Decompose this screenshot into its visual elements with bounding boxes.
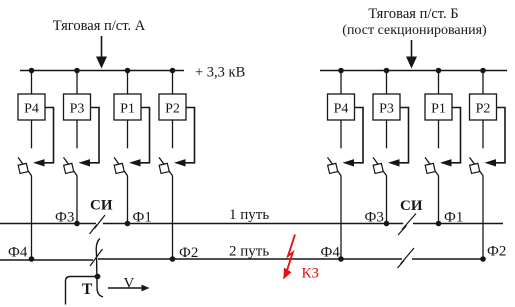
arrowhead lightning bolt (283, 268, 291, 280)
wire box to switch right feeder Р2 (482, 120, 484, 148)
wire train T branch with corner (66, 277, 98, 305)
wire switch to track left feeder Р1 (127, 176, 129, 224)
node track junction right feeder Р2 (480, 256, 486, 262)
wire switch to track right feeder Р4 (340, 176, 342, 259)
svg-text:СИ: СИ (400, 198, 423, 214)
disconnector blade right feeder Р4 (328, 157, 342, 175)
disconnector drive box right feeder Р4 (328, 163, 338, 173)
section insulator slashes track 1 left (90, 215, 106, 234)
wire track 2 contact line middle section (98, 258, 402, 260)
svg-text:Р1: Р1 (431, 102, 446, 117)
wire box to switch left feeder Р3 (76, 120, 78, 148)
svg-text:Р1: Р1 (120, 102, 135, 117)
wire box to switch right feeder Р1 (438, 120, 440, 148)
node track junction left feeder Р1 (125, 221, 131, 227)
disconnector drive box left feeder Р2 (159, 163, 169, 173)
section insulator slash track 2 right (398, 248, 415, 268)
wire switch to track right feeder Р1 (438, 176, 440, 224)
wire bus to relay box left feeder Р2 (172, 71, 174, 95)
node track junction left feeder Р4 (29, 256, 35, 262)
relay box right feeder Р1 (425, 94, 452, 120)
disconnector blade right feeder Р2 (470, 157, 484, 175)
disconnector blade right feeder Р3 (373, 157, 387, 175)
disconnector drive box right feeder Р2 (470, 163, 480, 173)
wire busbar A +3.3kV (20, 70, 184, 72)
node track junction right feeder Р1 (436, 221, 442, 227)
disconnector blade left feeder Р4 (18, 157, 32, 175)
wire bus to relay box left feeder Р4 (31, 71, 33, 95)
wire bus to relay box right feeder Р2 (482, 71, 484, 95)
wire switch to track left feeder Р3 (76, 176, 78, 224)
svg-text:(пост секционирования): (пост секционирования) (342, 23, 487, 38)
wire bus to relay box left feeder Р1 (127, 71, 129, 95)
disconnector blade left feeder Р2 (159, 157, 173, 175)
svg-text:Т: Т (82, 281, 93, 298)
disconnector drive box left feeder Р3 (64, 163, 74, 173)
relay box left feeder Р2 (159, 94, 186, 120)
arrowhead trip arrow right feeder Р1 (440, 159, 452, 166)
arrowhead trip arrow right feeder Р3 (388, 159, 400, 166)
wire switch to track left feeder Р4 (31, 176, 33, 259)
node bus junction right feeder Р2 (480, 68, 486, 74)
wire box to switch right feeder Р3 (386, 120, 388, 148)
disconnector blade left feeder Р3 (64, 157, 78, 175)
relay box right feeder Р2 (470, 94, 497, 120)
svg-text:Тяговая п/ст. Б: Тяговая п/ст. Б (368, 6, 458, 22)
svg-text:Р3: Р3 (70, 102, 85, 117)
wire bus to relay box left feeder Р3 (76, 71, 78, 95)
relay box left feeder Р4 (18, 94, 45, 120)
arrow V direction (108, 285, 150, 292)
relay box right feeder Р3 (373, 94, 400, 120)
svg-text:V: V (124, 275, 135, 291)
arrowhead trip arrow left feeder Р1 (129, 159, 141, 166)
svg-text:Ф3: Ф3 (55, 210, 74, 226)
wire trip arrow right feeder Р2 (496, 108, 506, 163)
svg-text:СИ: СИ (90, 198, 113, 214)
svg-text:Р3: Р3 (379, 102, 394, 117)
arrowhead trip arrow left feeder Р3 (79, 159, 91, 166)
wire track 2 contact line right section (412, 258, 483, 260)
svg-text:Ф1: Ф1 (444, 210, 463, 226)
svg-text:Ф2: Ф2 (179, 245, 198, 261)
wire trip arrow left feeder Р1 (140, 108, 150, 163)
wire trip arrow left feeder Р4 (44, 108, 54, 163)
svg-text:2 путь: 2 путь (229, 244, 269, 260)
svg-text:КЗ: КЗ (302, 266, 320, 282)
wire trip arrow right feeder Р4 (354, 108, 364, 163)
wire bus to relay box right feeder Р1 (438, 71, 440, 95)
node bus junction left feeder Р4 (29, 68, 35, 74)
node train T junction (95, 274, 101, 280)
arrow substation A feed (96, 36, 107, 69)
svg-text:1 путь: 1 путь (229, 207, 269, 223)
svg-text:Ф4: Ф4 (8, 245, 28, 261)
wire switch to track right feeder Р3 (386, 176, 388, 224)
svg-text:Тяговая п/ст. А: Тяговая п/ст. А (53, 18, 146, 34)
relay box right feeder Р4 (328, 94, 355, 120)
node track junction left feeder Р3 (74, 221, 80, 227)
wire box to switch left feeder Р2 (172, 120, 174, 148)
wire switch to track left feeder Р2 (172, 176, 174, 259)
wire track 1 contact line middle section (103, 223, 403, 225)
svg-text:Ф3: Ф3 (365, 210, 384, 226)
node bus junction right feeder Р4 (338, 68, 344, 74)
wire box to switch right feeder Р4 (340, 120, 342, 148)
wire switch to track right feeder Р2 (482, 176, 484, 259)
node bus junction right feeder Р1 (436, 68, 442, 74)
svg-text:Р4: Р4 (334, 102, 349, 117)
node bus junction left feeder Р3 (74, 68, 80, 74)
node track junction right feeder Р4 (338, 256, 344, 262)
svg-text:Ф4: Ф4 (321, 245, 341, 261)
wire busbar B (320, 70, 507, 72)
wire bus to relay box right feeder Р4 (340, 71, 342, 95)
wire track 1 contact line left section (0, 223, 96, 225)
node bus junction left feeder Р1 (125, 68, 131, 74)
node track junction right feeder Р3 (384, 221, 390, 227)
section insulator slash track 2 left (90, 249, 103, 266)
arrowhead trip arrow right feeder Р2 (485, 159, 497, 166)
wire track 1 contact line right section (413, 223, 503, 225)
relay box left feeder Р1 (114, 94, 141, 120)
wire trip arrow left feeder Р3 (90, 108, 100, 163)
disconnector drive box right feeder Р3 (373, 163, 383, 173)
disconnector drive box right feeder Р1 (425, 163, 435, 173)
arrowhead trip arrow left feeder Р2 (174, 159, 186, 166)
wire trip arrow right feeder Р1 (451, 108, 461, 163)
svg-text:Р2: Р2 (165, 102, 180, 117)
short-circuit lightning bolt KZ (286, 235, 295, 273)
disconnector blade left feeder Р1 (114, 157, 128, 175)
node bus junction left feeder Р2 (170, 68, 176, 74)
arrowhead trip arrow left feeder Р4 (33, 159, 45, 166)
relay box left feeder Р3 (64, 94, 91, 120)
svg-text:Р4: Р4 (24, 102, 39, 117)
node track junction left feeder Р2 (170, 256, 176, 262)
wire bus to relay box right feeder Р3 (386, 71, 388, 95)
wire box to switch left feeder Р4 (31, 120, 33, 148)
arrowhead trip arrow right feeder Р4 (343, 159, 355, 166)
wire track 2 contact line left section (0, 259, 93, 261)
section insulator slashes track 1 right (398, 214, 416, 236)
svg-text:Ф1: Ф1 (133, 210, 152, 226)
wire trip arrow right feeder Р3 (399, 108, 409, 163)
svg-text:Р2: Р2 (476, 102, 491, 117)
disconnector blade right feeder Р1 (425, 157, 439, 175)
wire box to switch left feeder Р1 (127, 120, 129, 148)
disconnector drive box left feeder Р4 (18, 163, 28, 173)
disconnector drive box left feeder Р1 (114, 163, 124, 173)
svg-text:+ 3,3 кВ: + 3,3 кВ (195, 65, 245, 81)
wire trip arrow left feeder Р2 (185, 108, 195, 163)
svg-text:Ф2: Ф2 (487, 244, 506, 260)
arrow substation B feed (406, 40, 417, 69)
node bus junction right feeder Р3 (384, 68, 390, 74)
pantograph squiggle through track 2 gap (96, 239, 103, 297)
